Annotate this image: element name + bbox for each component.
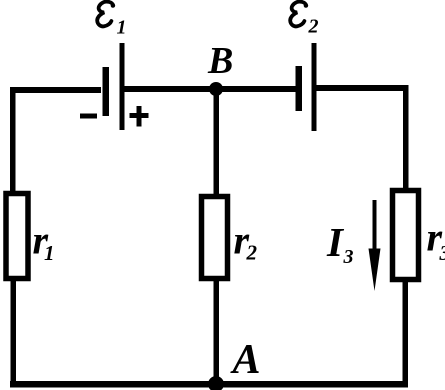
resistor r3 body xyxy=(393,191,419,280)
svg-text:1: 1 xyxy=(117,17,127,39)
svg-text:3: 3 xyxy=(439,241,445,265)
label EMF e2 (script epsilon drawn as path) xyxy=(290,2,306,27)
wire: middle vertical lower (r2 bottom to node A) xyxy=(214,279,220,385)
current arrow I3 (pointing down) xyxy=(369,200,381,291)
svg-text:B: B xyxy=(207,40,233,82)
wire: left vertical upper (corner down to resistor r1) xyxy=(10,87,16,193)
wire: right vertical upper (corner down to resistor r3) xyxy=(403,85,409,189)
svg-text:I: I xyxy=(326,219,345,265)
wire: top-right horizontal from battery E2 positive plate to right corner xyxy=(316,85,408,91)
battery E2 positive plate (long thin) xyxy=(312,43,317,131)
wire: right vertical lower (r3 bottom to bottom wire) xyxy=(403,281,409,388)
label EMF e1 (script epsilon drawn as path) xyxy=(97,2,113,27)
svg-text:1: 1 xyxy=(44,241,55,265)
svg-text:3: 3 xyxy=(343,246,354,268)
resistor r2 body xyxy=(202,197,228,279)
battery E1 plus sign xyxy=(130,106,149,127)
wire: top-left horizontal from left corner to battery E1 negative plate xyxy=(10,87,101,93)
wire: left vertical lower (r1 bottom to bottom wire) xyxy=(11,279,17,388)
node A junction dot xyxy=(208,376,224,390)
svg-text:A: A xyxy=(230,337,261,383)
node B junction dot xyxy=(209,82,223,96)
resistor r1 body xyxy=(6,194,28,279)
wire: bottom horizontal from bottom-left corner to bottom-right corner xyxy=(10,381,408,388)
wire: middle vertical upper (node B down to resistor r2) xyxy=(214,88,220,195)
battery E1 minus sign xyxy=(80,114,97,119)
battery E1 positive plate (long thin) xyxy=(120,43,125,130)
battery E2 negative plate (short thick) xyxy=(296,66,303,111)
svg-text:2: 2 xyxy=(246,241,258,265)
wire: top middle horizontal from battery E1 positive plate through node B to battery E2 xyxy=(124,86,297,92)
battery E1 negative plate (short thick) xyxy=(103,67,110,116)
svg-text:2: 2 xyxy=(308,16,319,38)
